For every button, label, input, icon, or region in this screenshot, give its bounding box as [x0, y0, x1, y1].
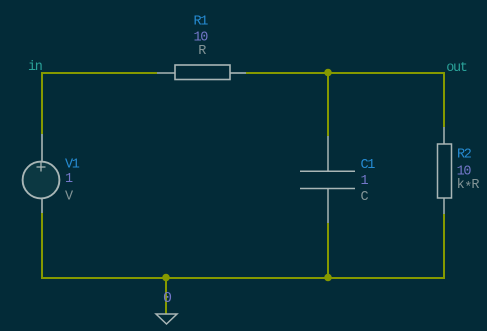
svg-text:V1: V1 — [65, 158, 80, 173]
wire C1 branch upper — [327, 72, 329, 136]
wire right vertical lower: R2 pin 2 to bottom rail — [443, 214, 445, 279]
junction at bottom rail / C1 — [324, 274, 332, 282]
resistor R1 — [157, 65, 246, 80]
resistor R2 — [438, 127, 452, 214]
wire left vertical lower: V1 minus pin to bottom rail — [41, 213, 43, 279]
voltage source V1 — [23, 134, 60, 213]
wire C1 branch lower — [327, 223, 329, 279]
svg-text:R2: R2 — [457, 147, 472, 162]
ground symbol — [156, 314, 177, 324]
wire right vertical upper: out corner to R2 pin 1 — [443, 72, 445, 127]
wire ground stub — [165, 277, 167, 314]
junction at bottom rail / ground — [162, 274, 170, 282]
wire bottom rail — [41, 277, 445, 279]
svg-text:C1: C1 — [361, 158, 376, 173]
svg-text:out: out — [446, 61, 467, 76]
wire top-right: R1 pin 2 to out corner — [246, 72, 445, 74]
wire top-left: node in to R1 pin 1 — [41, 72, 157, 74]
wire left vertical upper: in corner to V1 plus pin — [41, 72, 43, 134]
V1 plus sign — [37, 163, 46, 172]
svg-text:in: in — [28, 60, 42, 75]
junction at top rail / C1 — [324, 69, 332, 77]
svg-text:R1: R1 — [194, 15, 209, 30]
capacitor C1 — [300, 136, 355, 223]
